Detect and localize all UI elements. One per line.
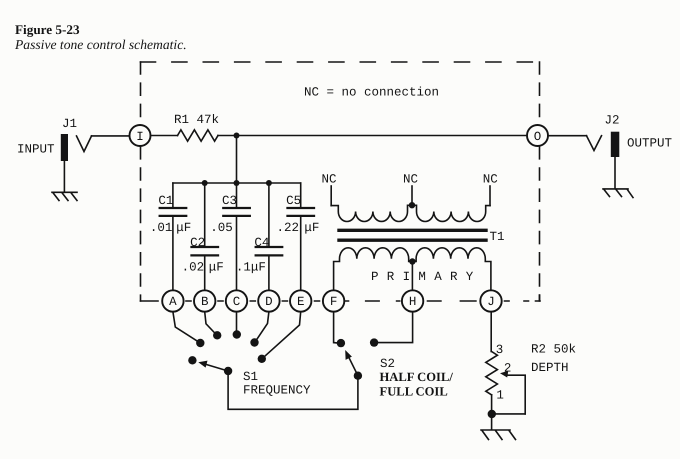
node H [402, 290, 423, 311]
node J [480, 290, 501, 311]
node A [162, 290, 183, 311]
svg-text:μF: μF [304, 221, 319, 235]
wire node I to R1 [151, 135, 178, 137]
node F [323, 290, 344, 311]
jack J1 [61, 134, 68, 161]
dashed box right edge [539, 62, 541, 301]
svg-text:Figure 5-23: Figure 5-23 [15, 22, 80, 37]
wire junction down to bus [236, 136, 238, 184]
node C [226, 290, 247, 311]
switch S2 contact H leg [374, 312, 413, 343]
bus junction D [266, 180, 272, 186]
switch S1 unused pole dot [188, 356, 196, 364]
transformer T1 primary winding [334, 248, 491, 290]
wire J2 sleeve to ground [614, 157, 616, 189]
svg-text:NC = no connection: NC = no connection [304, 86, 439, 100]
ground (R2) [481, 430, 516, 440]
wire primary tap to node H [411, 262, 413, 291]
svg-text:J: J [487, 295, 495, 309]
svg-text:C2: C2 [190, 236, 205, 250]
dashed box top edge [141, 61, 540, 63]
svg-text:O: O [534, 130, 542, 144]
wire J1 to node I [92, 135, 130, 137]
primary center tap dot [409, 258, 415, 264]
transformer T1 secondary winding [331, 205, 490, 221]
secondary center tap dot [409, 202, 415, 208]
svg-text:μF: μF [209, 261, 224, 275]
svg-text:NC: NC [403, 172, 418, 186]
svg-text:.01: .01 [150, 221, 173, 235]
node D [258, 290, 279, 311]
svg-text:F: F [330, 295, 338, 309]
switch S1 contact E leg [263, 312, 301, 359]
transformer T1 NC stub right [489, 186, 491, 206]
switch S1 wiper arm [206, 364, 229, 371]
jack J2 tip contact [587, 136, 602, 151]
svg-text:INPUT: INPUT [17, 143, 55, 157]
wire wiper to pin1 node [495, 413, 526, 415]
svg-text:.22: .22 [276, 221, 299, 235]
dashed box bottom edge [141, 295, 541, 301]
svg-text:I: I [136, 130, 144, 144]
jack J1 tip contact [77, 136, 92, 152]
wire R2 bottom [491, 395, 493, 430]
svg-text:.02: .02 [182, 261, 205, 275]
R2 wiper arm [506, 374, 526, 414]
node E [290, 290, 311, 311]
svg-text:1: 1 [496, 389, 504, 403]
svg-text:A: A [169, 295, 177, 309]
svg-text:OUTPUT: OUTPUT [627, 137, 673, 151]
transformer T1 NC stub left [330, 186, 332, 206]
switch S2 wiper arm [349, 357, 358, 376]
svg-text:NC: NC [483, 172, 498, 186]
svg-text:Passive tone control schematic: Passive tone control schematic. [14, 37, 187, 52]
svg-text:μF: μF [176, 221, 191, 235]
node O [527, 125, 548, 146]
svg-text:J2: J2 [605, 114, 620, 128]
switch S1 contact C leg [236, 312, 238, 334]
bus junction B [202, 180, 208, 186]
svg-text:B: B [201, 295, 209, 309]
bus junction C [234, 180, 240, 186]
transformer T1 core bar bottom [339, 238, 486, 241]
svg-text:DEPTH: DEPTH [531, 361, 569, 375]
wire S1 pivot to S2 pivot [228, 371, 358, 409]
svg-text:3: 3 [496, 343, 504, 357]
svg-text:NC: NC [321, 172, 336, 186]
svg-text:FULL COIL: FULL COIL [380, 384, 448, 398]
svg-text:.1μF: .1μF [236, 261, 266, 275]
switch S1 contact A leg [173, 312, 200, 343]
capacitor bus wire [173, 182, 301, 184]
switch S2 contact F leg [334, 312, 338, 343]
svg-text:PRIMARY: PRIMARY [371, 270, 482, 284]
transformer T1 NC stub center [411, 186, 413, 205]
svg-text:C4: C4 [254, 236, 269, 250]
switch S2 pivot dot [354, 372, 362, 380]
svg-text:R2 50k: R2 50k [531, 343, 576, 357]
node I [130, 125, 151, 146]
capacitor C2 [182, 183, 224, 290]
svg-text:C3: C3 [222, 194, 237, 208]
node B [194, 290, 215, 311]
dashed box left edge [140, 62, 142, 301]
svg-text:C1: C1 [158, 194, 173, 208]
svg-text:C5: C5 [286, 194, 301, 208]
svg-text:J1: J1 [62, 117, 77, 131]
transformer T1 core bar top [339, 229, 486, 232]
svg-text:HALF COIL/: HALF COIL/ [380, 370, 454, 384]
ground (output) [603, 189, 633, 198]
ground (input) [52, 192, 77, 200]
capacitor C5 [276, 183, 319, 290]
svg-text:S1: S1 [243, 370, 258, 384]
wire R1 to node O [218, 135, 527, 137]
wire J1 sleeve to ground [63, 161, 65, 192]
svg-text:H: H [409, 295, 417, 309]
wire node O to J2 [548, 135, 587, 137]
svg-text:R1 47k: R1 47k [174, 113, 219, 127]
capacitor C3 [210, 183, 250, 290]
potentiometer R2 [486, 352, 498, 395]
svg-text:D: D [265, 295, 273, 309]
svg-text:C: C [233, 295, 241, 309]
resistor R1 [178, 130, 219, 141]
capacitor C4 [236, 183, 282, 290]
switch S1 contact D leg [255, 312, 269, 342]
capacitor C1 [150, 183, 191, 290]
junction dot R2 bottom [488, 410, 496, 418]
wire node J down [490, 312, 492, 352]
switch S1 contact B leg [205, 312, 217, 335]
jack J2 [611, 132, 620, 157]
switch S1 pivot dot [224, 367, 232, 375]
junction main line [234, 133, 240, 139]
svg-text:T1: T1 [490, 230, 505, 244]
svg-text:.05: .05 [210, 221, 233, 235]
svg-text:FREQUENCY: FREQUENCY [243, 384, 311, 398]
svg-text:E: E [297, 295, 305, 309]
